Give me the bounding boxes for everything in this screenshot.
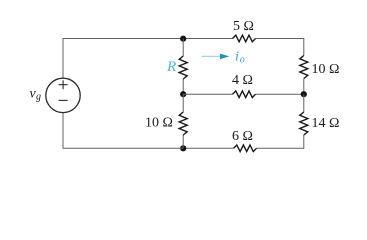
resistor 5-ohm (horizontal, top) <box>233 35 256 42</box>
wire top rail right + right drop to 10-ohm <box>256 39 304 56</box>
wire node A to resistor R <box>182 39 184 57</box>
wire 10-ohm bottom to node C <box>303 79 305 95</box>
resistor 10-ohm (vertical, right top) <box>300 56 308 79</box>
node A (junction dot top middle) <box>180 36 186 42</box>
wire bottom rail node D to 6-ohm <box>183 147 233 149</box>
svg-text:4 Ω: 4 Ω <box>232 73 253 88</box>
node D (junction dot bottom middle) <box>180 145 186 151</box>
svg-text:14 Ω: 14 Ω <box>312 116 340 131</box>
svg-text:10 Ω: 10 Ω <box>145 115 173 130</box>
wire middle rail node B to 4-ohm <box>183 93 232 95</box>
wire top rail left: source top to node A <box>63 39 183 79</box>
wire R bottom to node B <box>182 79 184 94</box>
resistor R (vertical, middle top) <box>179 56 187 79</box>
wire 10-ohm left bottom to node D <box>182 135 184 148</box>
voltage source minus sign <box>59 99 68 101</box>
node B (junction dot middle) <box>180 91 186 97</box>
resistor 10-ohm (vertical, middle bottom) <box>179 112 187 135</box>
resistor 4-ohm (horizontal, middle) <box>233 91 256 98</box>
current arrow i_o <box>202 55 221 57</box>
svg-text:o: o <box>240 54 245 65</box>
voltage source vg circle <box>46 78 80 112</box>
svg-text:R: R <box>166 59 176 75</box>
wire bottom rail left: source bottom to node D <box>63 113 183 149</box>
svg-text:10 Ω: 10 Ω <box>312 62 340 77</box>
resistor 6-ohm (horizontal, bottom) <box>234 145 257 152</box>
voltage source plus sign <box>59 80 68 89</box>
node C (junction dot right) <box>301 91 307 97</box>
wire node C to 14-ohm <box>303 94 305 112</box>
resistor 14-ohm (vertical, right bottom) <box>300 112 308 135</box>
wire node B to 10-ohm top <box>182 94 184 112</box>
svg-text:i: i <box>235 50 239 65</box>
wire middle rail 4-ohm to node C <box>256 93 304 95</box>
svg-text:6 Ω: 6 Ω <box>232 129 253 144</box>
wire 14-ohm bottom to bottom rail corner <box>257 135 304 148</box>
wire top rail node A to 5-ohm resistor <box>183 38 232 40</box>
svg-text:5 Ω: 5 Ω <box>233 19 254 34</box>
svg-text:g: g <box>36 91 41 102</box>
